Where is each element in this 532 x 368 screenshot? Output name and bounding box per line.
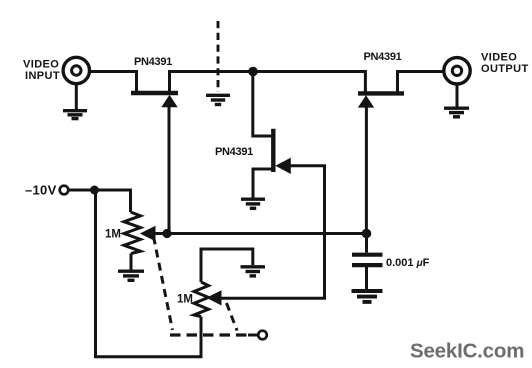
wire node A to node B xyxy=(167,232,367,235)
terminal -10V xyxy=(60,186,69,195)
capacitor C1 bottom lead xyxy=(365,267,368,289)
svg-text:VIDEO: VIDEO xyxy=(23,59,59,71)
ground (R2 top) xyxy=(241,267,266,276)
transistor Q1 PN4391 (left JFET) xyxy=(131,72,178,94)
node dot (top rail / Q2 drain) xyxy=(248,67,258,77)
connector J2 VIDEO OUTPUT (BNC) xyxy=(444,58,470,84)
label VIDEO OUTPUT xyxy=(481,52,529,75)
wire to control terminal xyxy=(248,334,258,337)
wire R1 bottom to ground xyxy=(130,254,133,270)
dashed gang link R2 wiper xyxy=(227,303,238,331)
svg-text:SeekIC.com: SeekIC.com xyxy=(410,340,524,363)
wire -10V to R1 top xyxy=(69,190,131,212)
ground (Q2 source) xyxy=(241,199,265,208)
dashed gang link horizontal xyxy=(170,333,249,336)
dashed gang link R1 wiper xyxy=(154,237,173,331)
svg-text:INPUT: INPUT xyxy=(25,70,60,82)
wire R2 bottom to -10V branch xyxy=(96,190,202,357)
wire J1 to ground xyxy=(75,84,78,109)
node dot (-10V branch) xyxy=(90,186,99,195)
R1 wiper arrow xyxy=(140,226,156,241)
terminal control shaft xyxy=(258,331,267,340)
svg-text:PN4391: PN4391 xyxy=(364,51,402,63)
Q1 gate arrow xyxy=(161,95,177,107)
wire Q1 gate down to node A xyxy=(168,105,171,234)
wire Q2 gate to R2 wiper xyxy=(221,166,325,298)
svg-text:VIDEO: VIDEO xyxy=(481,52,517,64)
connector J1 VIDEO INPUT (BNC) xyxy=(63,57,89,83)
ground (shield) xyxy=(206,95,230,104)
wire R2 top to ground xyxy=(201,249,253,282)
wire J2 to ground xyxy=(456,85,459,107)
svg-text:–10V: –10V xyxy=(25,183,57,198)
R2 wiper arrow xyxy=(206,290,221,305)
ground (input connector) xyxy=(63,111,87,119)
transistor Q3 PN4391 (right JFET) xyxy=(358,72,443,94)
svg-text:PN4391: PN4391 xyxy=(215,146,253,158)
wire R1 wiper to node A xyxy=(153,232,167,235)
wire top rail Q1 drain to Q3 drain xyxy=(170,72,366,93)
capacitor C1 xyxy=(352,255,383,265)
Q2 gate arrow xyxy=(275,158,291,174)
ground (output connector) xyxy=(444,108,469,117)
potentiometer R1 1M (zigzag) xyxy=(124,212,141,254)
svg-text:1M: 1M xyxy=(177,294,193,306)
svg-text:OUTPUT: OUTPUT xyxy=(481,63,529,75)
capacitor C1 top lead xyxy=(365,234,368,253)
ground (C1) xyxy=(352,291,383,302)
potentiometer R2 1M (zigzag) xyxy=(194,282,209,317)
wire J1 to Q1 source xyxy=(90,72,137,93)
node B dot (Q3 gate / C1) xyxy=(362,229,372,239)
svg-text:0.001 μF: 0.001 μF xyxy=(386,257,430,269)
ground (R1) xyxy=(118,271,144,280)
label VIDEO INPUT xyxy=(23,59,60,82)
node A dot (Q1 gate / R1 wiper) xyxy=(162,229,171,238)
transistor Q2 PN4391 (middle JFET) xyxy=(253,72,273,198)
dashed shield line xyxy=(217,21,220,92)
wire Q3 gate down to node B xyxy=(365,106,368,234)
svg-text:PN4391: PN4391 xyxy=(134,56,172,68)
Q3 gate arrow xyxy=(358,95,374,107)
svg-text:1M: 1M xyxy=(105,229,121,241)
